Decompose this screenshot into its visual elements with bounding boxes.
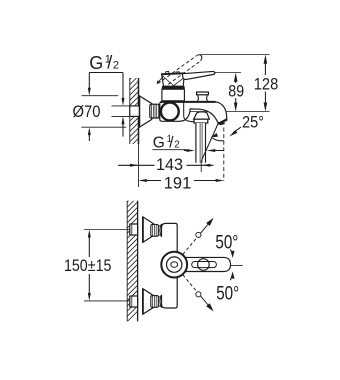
lower solid segment	[200, 296, 209, 307]
lower swing line (dashed)	[183, 275, 197, 292]
svg-text:G: G	[89, 53, 103, 73]
wall left edge	[129, 78, 131, 144]
wall hatch (plan view)	[118, 180, 144, 331]
hose pipe	[196, 123, 206, 163]
nipple bottom extension line	[112, 115, 130, 117]
lower angle tick arrow	[230, 276, 232, 280]
Ø70 top extension line	[82, 95, 119, 97]
bottom union nut	[130, 296, 138, 307]
diverter knob	[197, 92, 209, 95]
G1/2 pipe bottom arrow	[122, 124, 124, 136]
wall nipple	[130, 106, 140, 117]
spout/lever bar	[186, 257, 231, 271]
lever slot	[192, 262, 217, 268]
spout top thick edge	[161, 101, 216, 103]
lever raised position (dashed)	[158, 55, 201, 87]
center capsule	[171, 262, 178, 267]
svg-text:2: 2	[174, 140, 179, 151]
svg-text:191: 191	[164, 173, 192, 192]
top union nut	[130, 224, 138, 235]
25 degree arc	[213, 138, 224, 141]
upper solid segment	[200, 223, 209, 234]
hose G1/2 arrows	[184, 150, 224, 152]
stream extension line	[200, 160, 202, 172]
G1/2 left arm / Ø70 top arrow	[88, 73, 90, 89]
bottom union stub	[158, 297, 161, 306]
top union knurled collar	[151, 225, 159, 237]
bottom inlet boss	[160, 295, 162, 308]
cap top thick edge	[161, 72, 184, 75]
wall hatch (top view)	[120, 60, 144, 187]
svg-text:2: 2	[113, 60, 119, 72]
knurled nut	[150, 104, 160, 118]
wall face extension line down to 191 dim	[138, 144, 140, 187]
label G1/2 (hose outlet)	[153, 134, 180, 152]
joint band (dark)	[162, 86, 185, 89]
Ø70 bottom arrow	[88, 135, 90, 141]
svg-text:89: 89	[228, 82, 244, 101]
cartridge circle	[161, 252, 187, 278]
G1/2 right arm arrow to pipe top	[122, 73, 124, 99]
water stream line	[202, 122, 219, 160]
shower hose nipple dome	[194, 112, 210, 119]
G1/2 bracket line	[89, 72, 123, 74]
svg-text:G: G	[153, 135, 165, 152]
svg-text:Ø70: Ø70	[73, 102, 101, 121]
svg-text:50°: 50°	[215, 233, 238, 254]
inner circle	[167, 257, 182, 272]
diverter knob (plan)	[198, 259, 210, 271]
bottom union knurled collar	[151, 296, 159, 308]
body circle	[161, 103, 179, 121]
spout centerline / outlet reference line	[171, 111, 270, 113]
150 dimension line	[88, 238, 90, 293]
nipple top extension line	[112, 105, 130, 107]
svg-text:143: 143	[156, 155, 183, 174]
label G1/2 (top left)	[89, 53, 119, 73]
dimension 143	[118, 164, 214, 166]
svg-text:25°: 25°	[242, 114, 264, 132]
lower curl	[196, 292, 201, 297]
upper swing line (dashed)	[183, 238, 197, 255]
cap top nubs	[165, 72, 179, 74]
small indicator arrow on cap	[159, 76, 164, 81]
lower swing arrowhead	[206, 303, 213, 311]
wall face / right edge	[138, 78, 140, 144]
dimension 89: extension line at lever	[215, 72, 241, 74]
cap V mark	[162, 75, 184, 85]
dimension 128: extension line at raised lever	[201, 54, 270, 56]
Ø70 bottom extension line	[81, 126, 126, 128]
top union stub	[158, 226, 161, 235]
25 degree leader	[233, 127, 241, 133]
svg-text:50°: 50°	[216, 284, 239, 305]
body/spout joint line	[184, 103, 195, 122]
svg-text:128: 128	[254, 75, 279, 94]
150 dimension extension lines	[84, 229, 131, 231]
svg-text:/: /	[107, 53, 112, 73]
upper swing arrowhead	[206, 218, 213, 226]
dimension 89 line and arrows	[235, 81, 237, 104]
vertical dashed reference (191 extension)	[223, 128, 225, 182]
cap body	[162, 73, 185, 86]
cartridge column	[162, 89, 185, 101]
G1/2 underline	[152, 149, 186, 151]
upper curl	[196, 232, 201, 237]
bar centerline extension	[231, 264, 243, 266]
aerator outlet face	[218, 119, 227, 123]
hose nipple collar	[194, 119, 208, 123]
mixer body column	[162, 223, 178, 308]
dimension 191	[147, 180, 216, 182]
escutcheon flange (side view)	[139, 96, 152, 128]
upper angle tick arrow	[230, 249, 232, 253]
lever handle (rest position)	[183, 71, 215, 79]
valve body and spout	[160, 102, 227, 124]
top union flange	[143, 217, 156, 242]
raised lever end cap	[197, 55, 201, 61]
top inlet boss	[160, 224, 162, 237]
dimension 128 line and arrows	[264, 63, 266, 104]
svg-text:150±15: 150±15	[64, 256, 112, 275]
bottom union flange	[143, 289, 156, 314]
